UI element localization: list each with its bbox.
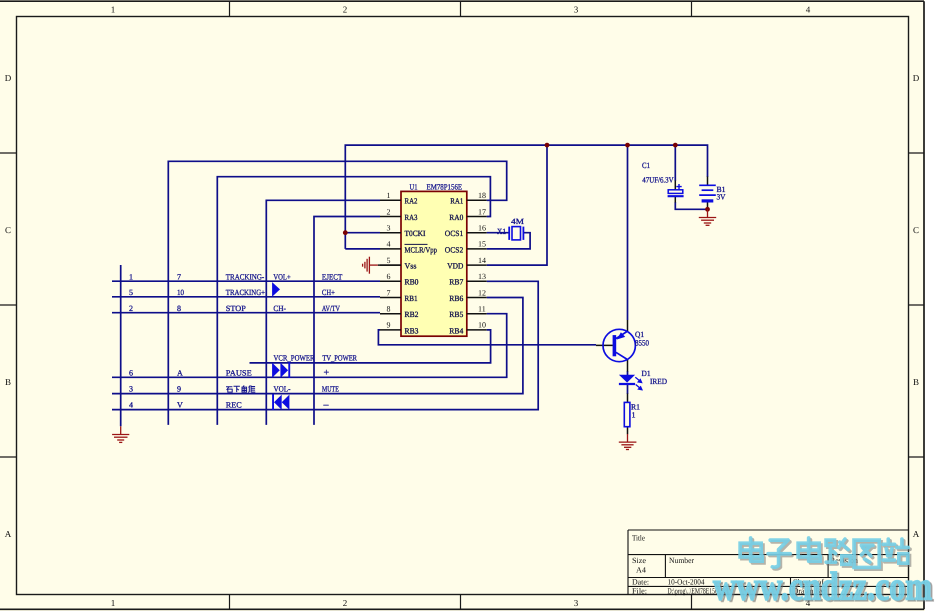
key diode pair REC row [272,394,274,410]
svg-text:12: 12 [478,288,486,297]
svg-text:TV_POWER: TV_POWER [322,353,357,362]
svg-text:10-Oct-2004: 10-Oct-2004 [668,578,705,587]
svg-text:4: 4 [806,5,811,15]
svg-text:4: 4 [387,240,391,249]
svg-text:OCS2: OCS2 [445,245,464,254]
svg-text:RB7: RB7 [449,278,463,287]
wire VDD pin14 riser [487,145,547,265]
crystal X1 [509,227,523,240]
svg-text:7: 7 [177,272,181,281]
svg-text:RA0: RA0 [449,213,463,222]
MCLR overline [405,243,428,245]
wire Q1 emitter to D1 [627,371,629,376]
svg-text:A4: A4 [636,566,646,575]
wire common column [120,265,122,426]
zone dividers left/right [0,153,924,457]
svg-text:C1: C1 [642,161,650,170]
svg-text:TRACKING-: TRACKING- [226,272,265,281]
svg-text:PAUSE: PAUSE [226,368,252,377]
key matrix labels [129,272,358,410]
svg-text:B: B [5,377,11,387]
svg-text:D: D [5,73,12,83]
svg-text:1: 1 [129,272,133,281]
svg-text:+: + [324,367,330,378]
R1 labels [631,403,640,420]
label right-bottom-corner-key CJK drawn [226,386,255,393]
svg-text:9: 9 [177,385,181,394]
svg-text:A: A [913,529,920,539]
IC U1 EM78P156E body [401,191,467,336]
svg-text:4M: 4M [511,217,524,226]
svg-text:RB6: RB6 [449,294,463,303]
svg-text:1: 1 [632,411,636,420]
svg-text:Vss: Vss [405,262,417,271]
svg-text:C: C [913,225,919,235]
svg-text:3V: 3V [717,193,726,202]
svg-text:17: 17 [478,207,486,216]
IC pin names [405,197,464,336]
svg-text:RA2: RA2 [405,197,418,206]
ground matrix common red [112,426,129,442]
wire row PAUSE to RB5 [112,314,507,378]
svg-text:RB2: RB2 [405,310,419,319]
wire D1 to R1 [627,385,629,395]
svg-text:3: 3 [574,5,579,15]
IC pin numbers [387,191,487,330]
wire C1 top lead [674,145,676,181]
battery labels [717,185,726,202]
D1 emission arrows [635,377,642,390]
svg-text:8550: 8550 [635,339,649,348]
title block [628,530,909,595]
svg-text:3: 3 [129,385,133,394]
svg-text:9: 9 [387,321,391,330]
ground battery red [699,209,716,225]
IC U1 designator and type [410,182,463,191]
Q1 emitter arrow [617,332,625,339]
svg-text:OCS1: OCS1 [445,229,464,238]
svg-text:15: 15 [478,240,486,249]
svg-text:VCR_POWER: VCR_POWER [274,353,316,362]
wire pin4 branch [345,248,380,250]
svg-text:V: V [177,401,183,410]
svg-text:11: 11 [478,305,486,314]
svg-text:X1: X1 [497,227,506,236]
crystal labels [497,217,524,236]
svg-text:2: 2 [129,304,133,313]
wire row VCR_POWER to RB4 [250,330,491,363]
svg-text:18: 18 [478,191,486,200]
svg-text:Title: Title [632,534,645,543]
wire row MUTE to RB6 [112,298,523,394]
svg-text:1: 1 [111,5,116,15]
svg-text:www.cndzz.com: www.cndzz.com [713,564,932,609]
svg-text:T0CKI: T0CKI [405,229,426,238]
svg-text:14: 14 [478,256,486,265]
svg-text:MUTE: MUTE [322,385,339,394]
ground R1 red [619,434,637,450]
svg-text:6: 6 [129,368,133,377]
svg-text:D: D [913,73,920,83]
svg-text:CH+: CH+ [322,288,335,297]
svg-text:VDD: VDD [447,262,463,271]
wire pin3 branch [345,232,380,234]
svg-text:CH-: CH- [273,304,286,313]
wire row TRACKING+ to RB1 [112,296,380,298]
svg-text:RB3: RB3 [405,326,419,335]
svg-text:REC: REC [226,401,242,410]
key diode TRACKING+ row [272,282,280,297]
svg-text:TRACKING+: TRACKING+ [226,288,266,297]
wire row TRACKING- to RB0 [112,280,380,282]
svg-text:5: 5 [387,256,391,265]
svg-text:2: 2 [343,598,348,608]
svg-text:RA1: RA1 [450,197,463,206]
svg-text:1: 1 [111,598,116,608]
wire Q1 collector riser [627,145,629,320]
transistor Q1 8550 [603,329,635,361]
svg-text:1: 1 [387,191,391,200]
svg-text:File:: File: [632,586,647,595]
svg-text:3: 3 [387,224,391,233]
svg-text:STOP: STOP [226,304,247,313]
wire net col4 to pin1 [266,200,380,425]
svg-text:10: 10 [478,321,486,330]
svg-text:16: 16 [478,224,486,233]
svg-text:47UF/6.3V: 47UF/6.3V [642,176,673,185]
resistor R1 [624,402,630,426]
LED D1 IRED [619,375,635,383]
svg-text:13: 13 [478,272,486,281]
battery B1 [699,185,716,201]
svg-text:4: 4 [129,401,133,410]
svg-text:U1: U1 [410,182,418,191]
IC pin stubs pins 1-18 [380,200,487,330]
wire net col3 to pin17 [217,177,490,425]
key diode pair VCR_POWER row [272,363,280,378]
svg-text:A: A [177,368,183,377]
zone dividers top/bottom [230,1,692,609]
capacitor labels [642,161,674,185]
svg-text:RB0: RB0 [405,278,419,287]
svg-text:10: 10 [177,288,184,297]
svg-text:A: A [5,529,12,539]
svg-text:Number: Number [669,556,694,565]
svg-text:2: 2 [387,207,391,216]
wire row REC to RB7 [112,281,538,409]
wire VDD top rail [345,145,707,249]
wire RB3 to Q1 base [378,330,596,345]
svg-text:EM78P156E: EM78P156E [427,182,463,191]
svg-text:C: C [5,225,11,235]
svg-text:Size: Size [632,556,646,565]
svg-text:2: 2 [343,5,348,15]
wire OCS1 to crystal [487,232,509,234]
component pin leads black [378,177,708,435]
svg-text:B: B [913,377,919,387]
Q1 labels [635,330,649,348]
svg-text:VOL+: VOL+ [273,272,291,281]
svg-text:6: 6 [387,272,391,281]
svg-text:RA3: RA3 [405,213,418,222]
wire net col5 to pin2 [314,217,380,425]
svg-text:8: 8 [177,304,181,313]
svg-text:3: 3 [574,598,579,608]
svg-text:8: 8 [387,305,391,314]
svg-text:Date:: Date: [632,578,649,587]
watermark site logo CJK drawn [740,538,764,563]
svg-text:RB1: RB1 [405,294,418,303]
D1 labels [642,369,668,386]
svg-text:7: 7 [387,288,391,297]
svg-text:AV/TV: AV/TV [322,304,340,313]
wire crystal to OCS2 [487,233,530,249]
svg-text:RB5: RB5 [449,310,463,319]
ground Vss left-facing red [363,257,378,274]
svg-text:VOL-: VOL- [274,385,291,394]
wire row STOP to RB2 [112,312,380,314]
wire C1 bottom to junction [675,202,707,209]
capacitor C1 [668,184,684,196]
svg-text:–: – [323,400,330,411]
junction dots [545,143,550,148]
svg-text:IRED: IRED [650,377,667,386]
svg-text:MCLR/Vpp: MCLR/Vpp [405,245,438,254]
svg-text:5: 5 [129,288,133,297]
svg-text:EJECT: EJECT [322,272,343,281]
wire net col2 to pin18 [168,161,506,425]
svg-text:RB4: RB4 [449,326,463,335]
